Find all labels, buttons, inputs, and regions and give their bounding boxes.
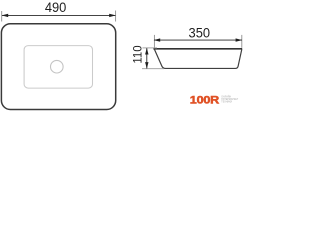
svg-text:ТЕХНИКИ: ТЕХНИКИ [221, 101, 232, 103]
svg-text:490: 490 [45, 0, 67, 16]
dim 110 arrow down [145, 62, 148, 69]
side view: body outline [154, 49, 241, 68]
svg-text:100R: 100R [190, 94, 219, 106]
dim 110 line [146, 48, 148, 68]
dim 350 arrow left [154, 38, 161, 41]
top view: inner bowl rect [24, 46, 92, 89]
dim 490 extension line right [115, 11, 117, 22]
dim 350 arrow right [236, 38, 243, 41]
side view: rim top edge [153, 48, 242, 50]
dim 490 arrow right [109, 14, 116, 17]
dim 110 extension line top [143, 47, 158, 49]
svg-text:110: 110 [131, 45, 145, 64]
dim 490 arrow left [2, 14, 9, 17]
dim 490 line [2, 14, 115, 16]
dim 350 extension line left [153, 35, 155, 48]
dim 490 extension line left [1, 11, 3, 22]
svg-text:350: 350 [189, 26, 211, 42]
dim 350 line [154, 39, 242, 41]
dim 110 arrow up [145, 48, 148, 55]
watermark small text [221, 96, 238, 104]
top view: outer basin rim [1, 24, 115, 110]
dim 350 extension line right [241, 35, 243, 48]
top view: drain circle [51, 60, 64, 73]
dim 110 extension line bottom [142, 68, 164, 70]
